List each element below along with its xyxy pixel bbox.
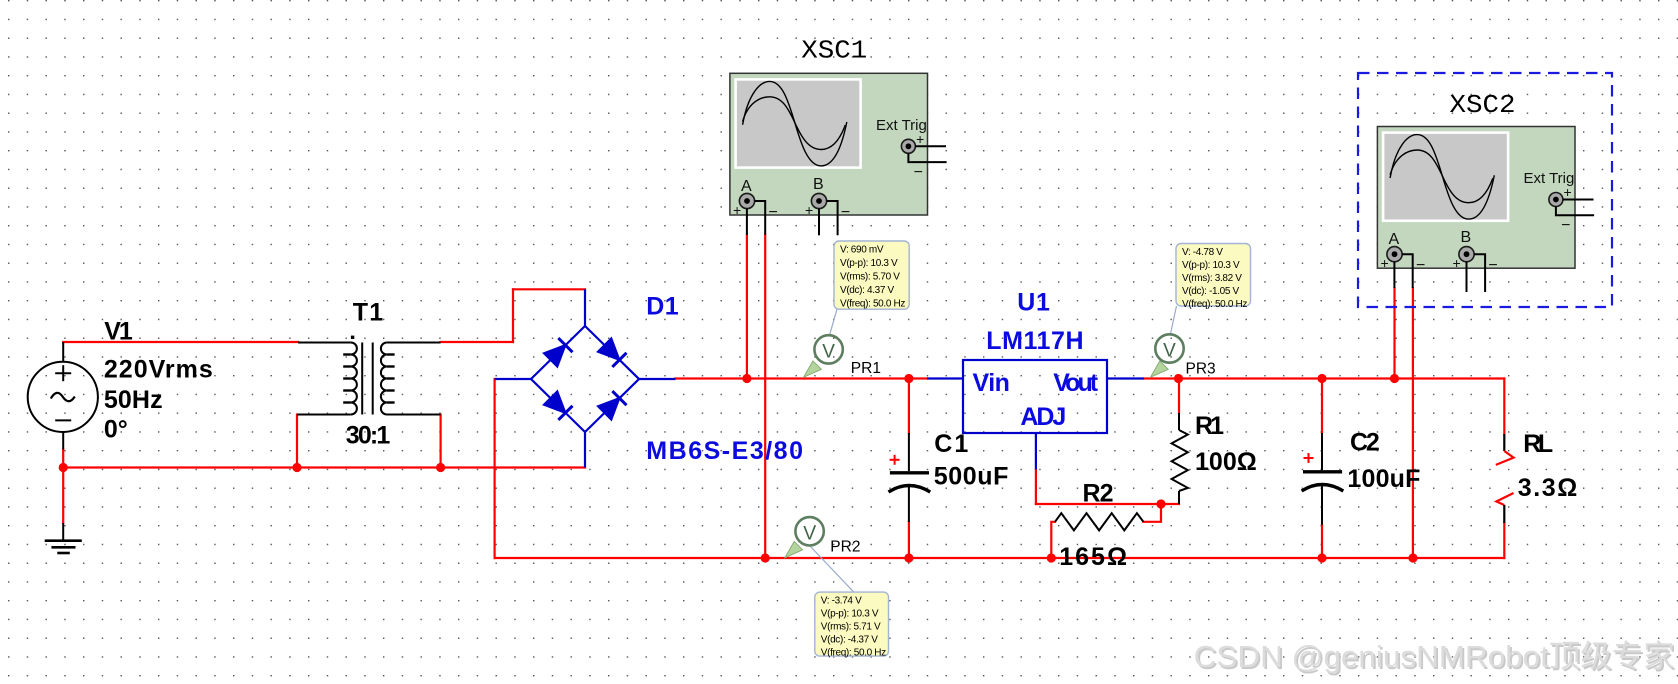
svg-text:CSDN @geniusNMRobot顶级专家: CSDN @geniusNMRobot顶级专家 bbox=[1194, 639, 1675, 674]
junction XSC2 A- bottom bbox=[1408, 553, 1417, 562]
ground bbox=[45, 523, 82, 553]
C1 plus sign bbox=[890, 455, 900, 465]
svg-text:V(rms): 5.70 V: V(rms): 5.70 V bbox=[840, 272, 900, 283]
oscilloscope XSC2 bbox=[1377, 127, 1594, 293]
wire secondary bottom drop bbox=[440, 415, 442, 468]
svg-text:U1: U1 bbox=[1017, 288, 1050, 316]
svg-text:100Ω: 100Ω bbox=[1195, 448, 1257, 476]
svg-text:V(p-p): 10.3 V: V(p-p): 10.3 V bbox=[1182, 260, 1240, 271]
bridge rectifier D1 bbox=[495, 289, 676, 467]
svg-text:V(freq): 50.0 Hz: V(freq): 50.0 Hz bbox=[821, 648, 886, 659]
svg-text:0°: 0° bbox=[104, 416, 128, 444]
wire R1 top lead bbox=[1178, 379, 1180, 414]
svg-text:V: -3.74 V: V: -3.74 V bbox=[821, 596, 862, 607]
junction XSC2 A+ on Vout rail bbox=[1390, 374, 1399, 383]
svg-text:Vin: Vin bbox=[973, 369, 1010, 397]
svg-text:V(freq): 50.0 Hz: V(freq): 50.0 Hz bbox=[840, 299, 905, 310]
svg-text:−: − bbox=[914, 164, 923, 181]
transformer T1 bbox=[297, 336, 441, 415]
probe PR1 readout box bbox=[834, 241, 909, 310]
capacitor C1 bbox=[889, 433, 931, 522]
C2 plus sign bbox=[1304, 453, 1314, 463]
svg-text:V(dc): 4.37 V: V(dc): 4.37 V bbox=[840, 285, 894, 296]
capacitor C2 bbox=[1302, 433, 1344, 525]
probe PR3 bbox=[1151, 306, 1184, 377]
probe PR2 bbox=[785, 517, 854, 592]
junction ADJ R1 R2 node bbox=[1156, 499, 1165, 508]
svg-text:−: − bbox=[769, 204, 778, 221]
diode D1b top-right bbox=[598, 338, 627, 367]
svg-text:165Ω: 165Ω bbox=[1059, 543, 1127, 571]
svg-text:V: V bbox=[803, 523, 816, 544]
svg-text:V(dc): -4.37 V: V(dc): -4.37 V bbox=[821, 635, 878, 646]
wire bridge negative drop bbox=[494, 379, 496, 558]
wire C2 bottom lead bbox=[1321, 525, 1323, 558]
resistor RL bbox=[1496, 434, 1514, 523]
probe PR2 readout box bbox=[815, 592, 889, 658]
svg-text:+: + bbox=[1381, 255, 1389, 271]
wire corner up to bridge top level bbox=[512, 289, 514, 342]
svg-text:+: + bbox=[733, 202, 741, 218]
wire V1 top to transformer primary bbox=[63, 341, 298, 343]
wire transformer secondary top to corner bbox=[441, 341, 513, 343]
svg-text:PR1: PR1 bbox=[851, 360, 881, 377]
svg-text:V(p-p): 10.3 V: V(p-p): 10.3 V bbox=[821, 609, 879, 620]
probe PR3 readout box bbox=[1176, 244, 1251, 311]
resistor R2 bbox=[1055, 513, 1143, 530]
svg-text:RL: RL bbox=[1523, 430, 1553, 458]
wire RL bottom lead bbox=[1503, 523, 1505, 558]
wire ADJ to R1/R2 node bbox=[1036, 503, 1179, 505]
wire primary bottom drop bbox=[296, 415, 298, 468]
junction secondary bottom bbox=[436, 463, 445, 472]
svg-text:V(p-p): 10.3 V: V(p-p): 10.3 V bbox=[840, 258, 898, 269]
svg-text:+: + bbox=[1564, 184, 1572, 200]
wire Vin rail bbox=[676, 377, 928, 379]
wire C1 bottom lead bbox=[908, 522, 910, 558]
svg-text:100uF: 100uF bbox=[1347, 465, 1420, 493]
svg-text:PR2: PR2 bbox=[830, 539, 860, 556]
svg-text:V(dc): -1.05 V: V(dc): -1.05 V bbox=[1182, 286, 1239, 297]
wire Vout rail bbox=[1144, 377, 1504, 379]
oscilloscope XSC1 bbox=[730, 73, 947, 235]
wire AC bottom rail bbox=[63, 466, 585, 468]
svg-text:+: + bbox=[805, 202, 813, 218]
wire RL top lead bbox=[1503, 379, 1505, 435]
wire V1 bottom to ground bbox=[62, 450, 64, 524]
junction R2 bottom bbox=[1047, 553, 1056, 562]
svg-text:+: + bbox=[916, 131, 924, 147]
junction R1 on Vout rail bbox=[1174, 374, 1183, 383]
regulator U1 LM117H box bbox=[927, 360, 1144, 469]
svg-text:ADJ: ADJ bbox=[1020, 403, 1066, 431]
svg-text:XSC2: XSC2 bbox=[1450, 91, 1516, 120]
svg-text:500uF: 500uF bbox=[934, 462, 1009, 490]
svg-text:R1: R1 bbox=[1195, 412, 1224, 440]
svg-text:V(freq): 50.0 Hz: V(freq): 50.0 Hz bbox=[1182, 299, 1247, 310]
svg-text:B: B bbox=[813, 176, 824, 193]
junction XSC1 A+ on Vin rail bbox=[742, 374, 751, 383]
wire R2 right lead bbox=[1143, 504, 1161, 522]
junction C2 on Vout rail bbox=[1317, 374, 1326, 383]
svg-text:V(rms): 3.82 V: V(rms): 3.82 V bbox=[1182, 273, 1242, 284]
wire XSC2 A- drop bbox=[1412, 288, 1414, 558]
svg-text:+: + bbox=[1453, 255, 1461, 271]
diode D1c bottom-left bbox=[544, 391, 573, 420]
svg-text:V1: V1 bbox=[104, 318, 133, 346]
svg-text:50Hz: 50Hz bbox=[104, 386, 163, 414]
junction XSC1 A- on bottom rail bbox=[761, 553, 770, 562]
resistor R1 bbox=[1172, 413, 1188, 504]
wire XSC1 A+ drop bbox=[746, 235, 748, 379]
wire DC bottom rail bbox=[495, 557, 1505, 559]
svg-text:T1: T1 bbox=[353, 299, 383, 327]
junction C1 on Vin rail bbox=[904, 374, 913, 383]
AC source V1 bbox=[28, 342, 98, 450]
svg-text:V: 690 mV: V: 690 mV bbox=[840, 245, 884, 256]
svg-text:220Vrms: 220Vrms bbox=[104, 355, 213, 383]
svg-text:A: A bbox=[1389, 231, 1400, 248]
wire to bridge top vertex bbox=[513, 288, 585, 290]
svg-text:−: − bbox=[1561, 217, 1570, 234]
svg-text:V: V bbox=[822, 342, 835, 363]
svg-text:30:1: 30:1 bbox=[346, 422, 391, 450]
svg-text:LM117H: LM117H bbox=[986, 327, 1083, 355]
svg-text:−: − bbox=[841, 204, 850, 221]
svg-text:C2: C2 bbox=[1350, 429, 1380, 457]
junction V1 ground node bbox=[59, 463, 68, 472]
svg-text:3.3Ω: 3.3Ω bbox=[1518, 474, 1578, 502]
svg-text:−: − bbox=[1488, 257, 1497, 274]
junction primary bottom bbox=[292, 463, 301, 472]
svg-text:−: − bbox=[1416, 257, 1425, 274]
diode D1a top-left bbox=[544, 338, 573, 367]
XSC2 selection dashed box bbox=[1358, 73, 1612, 307]
junction C1 bottom bbox=[904, 553, 913, 562]
svg-text:B: B bbox=[1461, 229, 1472, 246]
svg-text:MB6S-E3/80: MB6S-E3/80 bbox=[646, 437, 803, 465]
svg-text:PR3: PR3 bbox=[1186, 360, 1216, 377]
wire R2 left lead drop bbox=[1051, 522, 1055, 558]
wire XSC2 A+ drop bbox=[1393, 288, 1395, 379]
wire XSC1 A- drop bbox=[764, 235, 766, 558]
svg-text:V: V bbox=[1163, 341, 1176, 362]
svg-text:V(rms): 5.71 V: V(rms): 5.71 V bbox=[821, 622, 881, 633]
wire C1 top lead bbox=[908, 379, 910, 434]
wire C2 top lead bbox=[1321, 379, 1323, 434]
junction C2 bottom bbox=[1317, 553, 1326, 562]
svg-text:D1: D1 bbox=[646, 293, 678, 321]
svg-text:Vout: Vout bbox=[1053, 369, 1098, 397]
svg-text:XSC1: XSC1 bbox=[801, 36, 867, 65]
probe PR1 bbox=[804, 309, 843, 377]
svg-text:C1: C1 bbox=[934, 430, 968, 458]
wire ADJ red vertical bbox=[1035, 469, 1037, 504]
svg-text:A: A bbox=[741, 178, 752, 195]
svg-text:R2: R2 bbox=[1083, 480, 1114, 508]
diode D1d bottom-right bbox=[598, 391, 627, 420]
svg-text:V: -4.78 V: V: -4.78 V bbox=[1182, 247, 1223, 258]
